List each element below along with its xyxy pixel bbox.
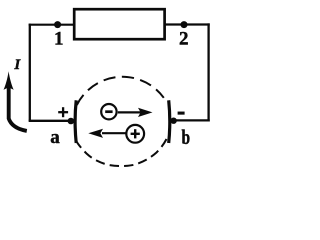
wire: top-left horizontal from left corner to resistor box	[29, 24, 75, 26]
wire: left vertical side	[29, 24, 31, 122]
positive charge symbol (circled plus)	[126, 125, 144, 143]
arrow left (positive charge motion toward a)	[88, 129, 125, 138]
arrow right (negative charge motion toward b)	[118, 108, 153, 117]
svg-text:b: b	[181, 126, 190, 149]
node 2 (junction dot on top wire)	[181, 21, 188, 28]
node a (junction dot at terminal a)	[68, 118, 75, 125]
svg-text:a: a	[50, 127, 60, 148]
svg-text:I: I	[13, 57, 21, 73]
wire: bottom-right horizontal from terminal b to right corner	[174, 119, 210, 121]
wire: bottom-left horizontal to terminal a	[29, 120, 71, 122]
wire: right vertical side	[207, 23, 209, 121]
battery plate, terminal a (+)	[75, 100, 76, 143]
node b (junction dot at terminal b)	[170, 118, 176, 124]
svg-text:1: 1	[54, 28, 64, 49]
dashed circle (boundary of emf device), bottom arc	[76, 139, 167, 166]
resistor R (rectangular box)	[74, 9, 164, 39]
wire: top-right horizontal from resistor box to right corner	[164, 23, 210, 25]
current arrow I (thick curved arrow outside loop, pointing up)	[4, 71, 27, 131]
battery plate, terminal b (-)	[169, 100, 170, 143]
node 1 (junction dot on top wire)	[54, 21, 61, 28]
label - (polarity at terminal b)	[178, 112, 185, 115]
svg-text:2: 2	[179, 28, 189, 49]
dashed circle (boundary of emf device), top arc	[77, 77, 164, 105]
negative charge symbol (circled minus)	[101, 104, 116, 119]
label + (polarity at terminal a)	[58, 107, 68, 117]
